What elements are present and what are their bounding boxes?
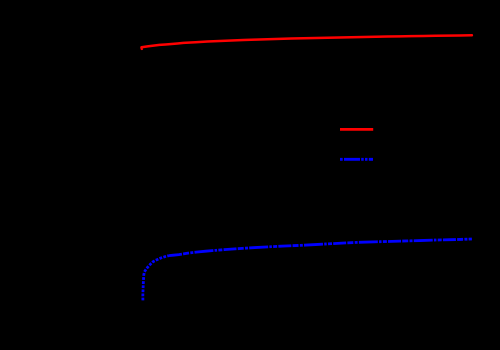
blue dashed curve, steep head segment [143, 256, 169, 301]
legend blue swatch [340, 158, 373, 161]
legend red swatch [340, 128, 373, 131]
blue dashed curve, flat tail segment [169, 239, 472, 256]
red solid curve (upper series) [142, 35, 472, 49]
